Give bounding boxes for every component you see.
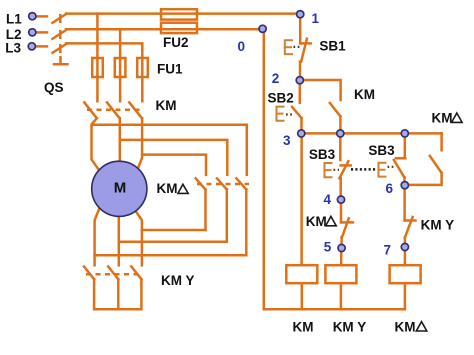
pushbutton SB2 actuator [277,107,284,121]
fuse FU2 element 1 [161,9,197,19]
wire node7 to coil KM-delta [404,250,407,265]
fuse FU1 element 1 [92,58,103,77]
node 1 [297,11,304,18]
switch QS pole 2 [53,30,67,39]
wire coil KM-Y to bus [340,283,343,309]
wire motor U1 branch to delta [93,125,247,175]
node 5 [338,244,345,251]
svg-text:7: 7 [384,242,392,257]
pushbutton SB3 right link dots [388,166,394,168]
coil KM-Y [325,265,356,283]
contactor KM-Y pole 3 [131,267,141,280]
svg-text:FU1: FU1 [157,61,183,76]
svg-text:1: 1 [312,11,320,26]
pushbutton SB3 left actuator [325,163,332,177]
pushbutton SB3 link dots short [334,169,340,171]
node 7 [401,243,408,250]
contactor KM-delta power pole 1 [196,178,206,230]
wire node row to SB3 right [404,133,407,158]
wire star point middle [117,279,120,309]
mechanical link SB3 dotted [351,168,377,171]
contactor KM main linkage [87,109,140,112]
svg-text:L3: L3 [5,41,21,56]
wire KM aux to node row [339,116,342,133]
wire U2 to delta pole3 [95,254,247,257]
svg-text:SB3: SB3 [368,143,395,158]
contactor KM main pole 2 [107,102,120,163]
coil KM [286,265,317,283]
svg-text:KM: KM [432,110,453,125]
wire KM-delta NO branch top [440,133,443,150]
terminal circle L1 [29,13,36,20]
switch QS handle [54,57,68,64]
svg-text:KM: KM [157,181,178,196]
wire coil KM-delta to bus [404,283,407,309]
svg-text:KM Y: KM Y [161,273,195,288]
wire node6 down [403,185,406,220]
label KM-delta NC [306,214,336,229]
wire SB3 left to node 4 [339,178,342,196]
contactor KM-Y pole 1 [84,267,94,280]
svg-text:KM Y: KM Y [421,218,455,233]
wire FU1 drop 1 [96,14,99,102]
wire motor W1 branch to delta [142,155,206,175]
wire to node 5 [340,237,343,245]
switch QS pole 1 [53,14,67,23]
pushbutton SB3 right contact [394,158,405,177]
contactor KM-delta linkage [197,183,249,186]
wire to node 7 [404,238,407,244]
wire star point [94,279,141,309]
contactor KM-Y pole 2 [108,267,118,280]
coil KM-delta [390,265,421,283]
contactor KM-Y linkage [86,273,139,276]
svg-text:2: 2 [272,71,280,86]
contact KM-delta NC [341,203,353,238]
node 0 [259,25,266,32]
wire motor V2 lead [118,214,121,265]
node 6 [401,182,408,189]
wire SB2 to node 3 [300,118,303,133]
label coil KM-delta [395,319,427,334]
wire motor V1 branch to delta [120,140,228,175]
terminal L3 [36,45,48,48]
svg-text:SB1: SB1 [319,39,346,54]
node junction KM aux [337,130,344,137]
svg-text:3: 3 [283,133,291,148]
svg-text:SB2: SB2 [268,91,294,106]
wire SB3 right to node 6 [403,178,406,186]
contact KM-Y NC [405,217,416,238]
wire FU1 drop 3 [141,59,144,102]
contactor KM aux contact [330,103,341,116]
svg-text:4: 4 [324,192,332,207]
wire node1 to SB1 [299,14,302,43]
wire bottom bus [264,308,405,311]
wire motor U2 lead [95,208,100,265]
wire row L1 to node 1 [66,12,300,15]
svg-text:5: 5 [324,240,332,255]
wire coil KM to bus [301,283,304,309]
svg-text:L1: L1 [6,11,22,26]
wire node 3 row [301,132,441,135]
label KM-delta aux top right [432,110,463,125]
terminal circle L3 [28,43,35,50]
wire W2 to delta pole1 [142,229,206,232]
fuse FU1 element 3 [137,58,148,77]
node 4 [337,196,344,203]
fuse FU1 element 2 [115,58,126,77]
pushbutton SB2 link dots [286,113,294,115]
contact KM-delta NO [430,156,442,173]
wire V2 to delta pole2 [119,240,227,243]
node 2 [296,77,303,84]
wire node2 to SB2 [299,80,302,103]
wire row L2 to node 0 [66,28,262,31]
svg-text:KM: KM [354,87,375,102]
svg-text:6: 6 [386,181,394,196]
svg-text:KM: KM [293,319,314,334]
wire node3 to coil KM [300,133,303,265]
pushbutton SB3 left contact [339,161,350,178]
terminal circle L2 [29,29,36,36]
node 3 [298,130,305,137]
wire KM-delta NO branch bottom [405,173,442,185]
label KM-delta power [157,181,189,196]
contactor KM main pole 3 [129,102,142,168]
pushbutton SB3 right actuator [379,163,386,177]
svg-text:KM: KM [306,214,327,229]
pushbutton SB2 contact [292,107,302,118]
svg-text:M: M [114,180,127,197]
svg-text:KM: KM [395,319,416,334]
wire SB1 to node 2 [299,62,302,81]
fuse FU2 element 2 [161,23,197,33]
svg-text:QS: QS [44,80,64,95]
pushbutton SB1 link dots [294,46,300,48]
contactor KM-delta power pole 3 [237,178,247,255]
node junction SB3 right [401,130,408,137]
terminal L1 [36,15,47,18]
wire FU1 drop 2 [119,29,122,101]
wire node5 to coil KM-Y [340,251,343,265]
pushbutton SB1 actuator [285,40,292,54]
contactor KM main pole 1 [84,102,99,170]
svg-text:0: 0 [238,39,246,54]
wire motor W2 lead [134,208,142,265]
wire node row to SB3 left [339,133,342,160]
motor M [92,161,147,216]
svg-text:SB3: SB3 [309,147,336,162]
svg-text:FU2: FU2 [163,35,189,50]
terminal L2 [36,31,47,34]
wire node2 to KM aux [300,80,341,100]
wire node0 return [263,29,266,310]
contactor KM-delta power pole 2 [217,178,227,241]
svg-text:KM Y: KM Y [333,319,367,334]
wire row L3 to FU1 [66,43,142,58]
switch QS pole 3 [53,44,67,53]
pushbutton SB1 contact [301,39,311,62]
svg-text:KM: KM [156,98,177,113]
